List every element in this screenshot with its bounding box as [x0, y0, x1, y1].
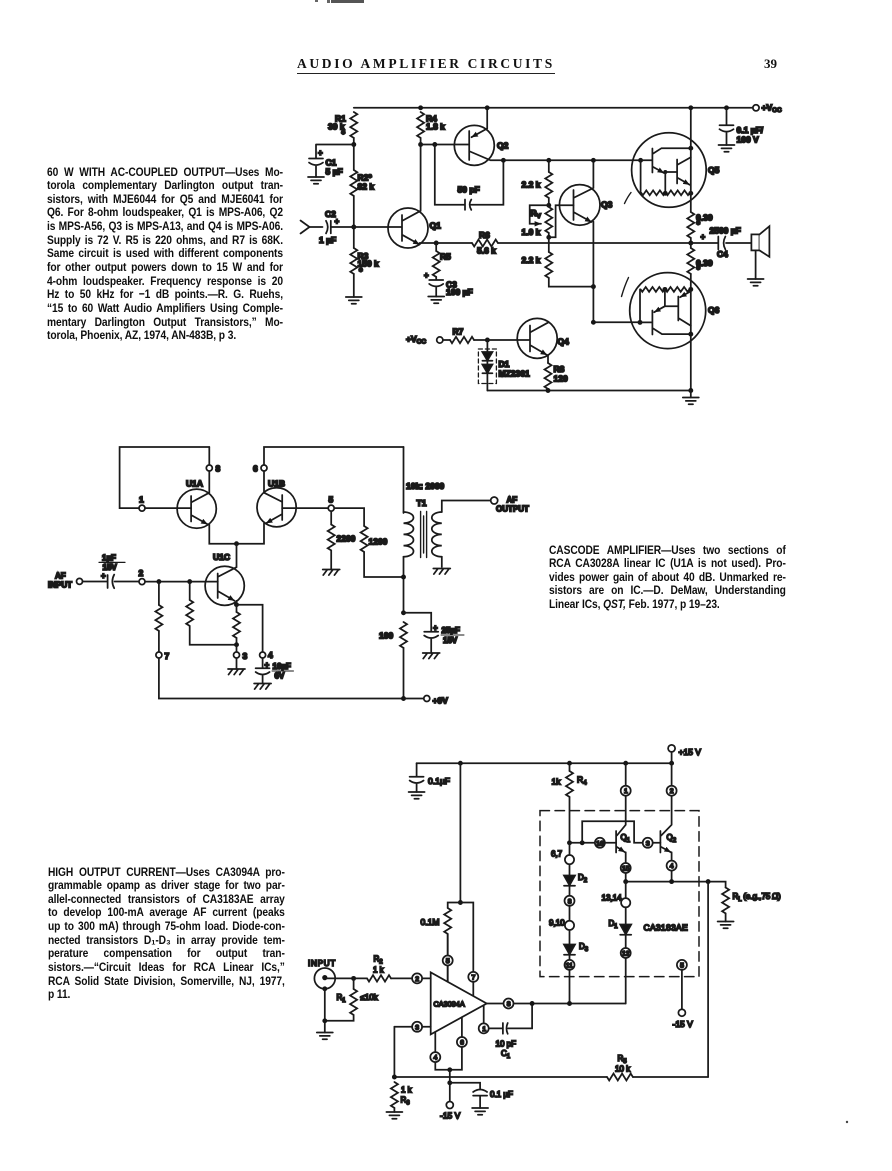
capacitor C1 10 pF: [490, 1004, 533, 1034]
darlington Q5: [632, 133, 707, 208]
svg-text:100: 100: [379, 631, 393, 641]
svg-text:+15 V: +15 V: [679, 747, 702, 757]
wire: pin1 to U1A base: [146, 507, 192, 509]
ground (main): [690, 391, 692, 398]
resistor 1200: [335, 508, 365, 526]
svg-text:15V: 15V: [443, 636, 458, 645]
svg-text:1 k: 1 k: [401, 1086, 413, 1095]
pin circled 8: [565, 896, 575, 906]
svg-text:*: *: [697, 220, 701, 230]
transistor Q3: [559, 185, 600, 226]
ground below 0.1uF: [409, 792, 425, 799]
caption: 60 W WITH AC-COUPLED OUTPUT: [47, 166, 283, 344]
svg-text:D2: D2: [578, 873, 588, 884]
wire: emitter to pin 4: [237, 605, 263, 652]
diode D1: [620, 925, 631, 935]
transistor Q1: [388, 208, 428, 248]
wire: -15V column: [449, 1070, 451, 1102]
resistor (emitter): [234, 602, 239, 607]
wire: U1C base line: [146, 581, 218, 583]
svg-text:MZ2361: MZ2361: [499, 369, 530, 379]
pin open 13,14: [621, 898, 630, 907]
wire: base bus to Q1: [570, 842, 617, 844]
transistor U1C: [205, 566, 244, 605]
svg-text:2.2 k: 2.2 k: [522, 255, 541, 265]
pin circled 2 (opamp): [412, 973, 422, 983]
svg-text:Q2: Q2: [667, 833, 677, 844]
opamp U1 CA3094A: [431, 972, 487, 1034]
resistor 2.2 k (lower): [548, 237, 550, 252]
svg-text:1k: 1k: [552, 777, 562, 787]
transistor Q2: [454, 125, 494, 165]
svg-text:15V: 15V: [103, 563, 118, 572]
svg-text:25µF: 25µF: [442, 626, 461, 635]
wire: base hook to Q2 via pin 3: [582, 821, 660, 843]
loudspeaker: [751, 234, 759, 250]
capacitor C1: [309, 159, 323, 178]
svg-text:*: *: [359, 267, 363, 277]
svg-text:INPUT: INPUT: [308, 959, 336, 968]
ground below 25uF: [423, 653, 440, 659]
capacitor 0.1uF (neg rail): [450, 1083, 487, 1108]
svg-text:1 µF: 1 µF: [319, 235, 336, 245]
svg-text:+: +: [433, 624, 438, 633]
terminal: +15 V: [668, 745, 675, 752]
svg-text:0.1 µF/: 0.1 µF/: [737, 125, 764, 135]
svg-text:1.8 k: 1.8 k: [426, 122, 445, 132]
pin circled 3: [643, 838, 653, 848]
wire: +15V rail: [417, 762, 672, 764]
svg-text:1200: 1200: [369, 537, 388, 547]
svg-text:1: 1: [624, 788, 628, 795]
node: +9V junction: [401, 696, 406, 701]
svg-text:6,7: 6,7: [551, 850, 563, 859]
resistor (bias, base): [187, 579, 192, 584]
svg-text:10k: 2000: 10k: 2000: [406, 481, 445, 491]
svg-text:C2: C2: [325, 209, 336, 219]
transformer T1 secondary: [432, 512, 442, 557]
svg-text:Q3: Q3: [601, 200, 613, 210]
capacitor C3 100 uF: [429, 280, 443, 297]
svg-text:R7: R7: [453, 327, 464, 337]
resistor R8: [547, 355, 549, 363]
node: pin 6 terminal: [261, 465, 267, 471]
svg-text:Q4: Q4: [558, 337, 570, 347]
resistor R5 10k: [394, 1076, 607, 1078]
svg-text:3: 3: [646, 840, 650, 847]
svg-text:R5: R5: [618, 1054, 628, 1065]
svg-text:CA3183AE: CA3183AE: [644, 923, 688, 933]
svg-text:+VCC: +VCC: [762, 103, 782, 115]
svg-text:0.1µF: 0.1µF: [428, 776, 450, 786]
resistor 0.39 (upper): [687, 212, 694, 238]
svg-text:R4: R4: [577, 775, 587, 787]
node: R4 bottom / bases: [567, 840, 572, 845]
diode D1 (dual) MZ2361: [486, 340, 488, 352]
svg-text:3: 3: [415, 1024, 419, 1031]
resistor R7: [443, 339, 450, 341]
node: pin 5 terminal: [328, 505, 334, 511]
resistor 0.39 (lower): [690, 243, 692, 248]
node: pin 3 terminal: [234, 652, 240, 658]
wire: pin 4: [435, 1032, 450, 1070]
svg-text:1µF: 1µF: [102, 554, 116, 563]
resistor R3: [353, 227, 355, 248]
resistor RL: [722, 888, 729, 914]
terminal: AF OUTPUT: [491, 497, 498, 504]
wire: output node line to RL: [626, 882, 726, 888]
wire: emitter ground bus: [487, 390, 690, 392]
svg-text:5: 5: [680, 962, 684, 969]
svg-text:-15 V: -15 V: [673, 1019, 694, 1029]
capacitor 50 pF feedback: [435, 145, 504, 210]
svg-text:4: 4: [670, 863, 674, 870]
wire: D1 column: [625, 882, 627, 925]
svg-text:7: 7: [165, 651, 170, 661]
wire: pin 6: [450, 1017, 462, 1070]
svg-text:2.2 k: 2.2 k: [522, 180, 541, 190]
ground below 2200: [323, 570, 340, 576]
svg-text:R1: R1: [337, 993, 347, 1004]
stray pen mark: [625, 193, 632, 204]
input jack: [314, 968, 335, 989]
svg-text:1: 1: [139, 495, 144, 505]
resistor R2 1k: [367, 975, 391, 981]
ground below 10uF: [254, 684, 271, 690]
node: output: [688, 241, 693, 246]
node: primary bottom junction: [401, 575, 406, 580]
svg-text:RL (e.g.,75 Ω): RL (e.g.,75 Ω): [733, 892, 781, 903]
transistor U1A: [177, 489, 216, 528]
wire: feedback vertical: [707, 882, 709, 1077]
svg-text:Q5: Q5: [708, 165, 720, 175]
input arrow terminal: [301, 221, 310, 234]
svg-text:10 k: 10 k: [615, 1065, 631, 1074]
capacitor C2: [326, 221, 354, 234]
ground below RL: [718, 922, 734, 929]
capacitor 25uF 15V: [404, 613, 439, 653]
resistor R1: [353, 978, 355, 989]
svg-text:10 pF: 10 pF: [496, 1040, 517, 1049]
pin open 6,7: [569, 843, 571, 876]
wire: input to R2: [327, 977, 367, 979]
svg-text:8: 8: [507, 1001, 511, 1008]
svg-text:100 µF: 100 µF: [446, 287, 473, 297]
svg-text:+: +: [265, 661, 270, 670]
pin circled 2: [667, 786, 677, 796]
wire: pin 3 input: [394, 1026, 430, 1028]
svg-text:2: 2: [415, 976, 419, 983]
svg-text:1: 1: [482, 1026, 486, 1033]
svg-text:R5: R5: [440, 252, 451, 262]
ground below C3: [428, 297, 444, 304]
svg-text:R2: R2: [374, 955, 384, 966]
ground below R3: [346, 297, 362, 304]
resistor R4 1k: [566, 771, 573, 797]
pin circled 1: [621, 786, 631, 796]
wire: +Vcc top supply rail: [354, 107, 753, 109]
node: pin 1 terminal: [139, 505, 145, 511]
svg-text:2500 µF: 2500 µF: [710, 226, 741, 236]
resistor R6 5.6 k: [434, 241, 439, 246]
ground below 0.1uF: [472, 1108, 488, 1115]
caption: CASCODE AMPLIFIER: [549, 544, 786, 612]
svg-text:≤10k: ≤10k: [361, 993, 379, 1002]
pin circled 7: [468, 972, 478, 982]
svg-text:D1: D1: [499, 359, 510, 369]
ground below C1: [308, 177, 324, 184]
svg-text:*: *: [342, 129, 346, 139]
resistor R1: [350, 112, 357, 138]
wire to Q2 base: [421, 144, 470, 146]
resistor R4: [417, 112, 424, 138]
svg-text:OUTPUT: OUTPUT: [496, 505, 529, 514]
wire: jack ground: [324, 989, 326, 1033]
ground below jack: [317, 1033, 333, 1040]
diode D2: [564, 876, 575, 886]
capacitor 0.1uF (rail bypass): [410, 763, 424, 792]
wire: pin7 to supply rail: [159, 658, 404, 698]
wire: RV wiper to Q3 base: [549, 205, 574, 237]
svg-text:+9V: +9V: [433, 695, 449, 705]
svg-text:-15 V: -15 V: [440, 1111, 461, 1121]
darlington Q6: [630, 273, 706, 349]
node: cascode common junction: [234, 541, 239, 546]
svg-text:R6: R6: [479, 230, 490, 240]
node: pin 7 terminal: [156, 652, 162, 658]
svg-text:1 k: 1 k: [373, 966, 385, 975]
svg-text:3: 3: [243, 651, 248, 661]
node: pin 8 terminal: [206, 465, 212, 471]
node: Q4 collector line to Q6 base: [593, 321, 640, 323]
resistor R2: [353, 145, 355, 171]
node: Q4 base: [485, 338, 490, 343]
svg-text:12: 12: [622, 951, 630, 958]
svg-text:Q2: Q2: [497, 141, 509, 151]
svg-text:82 k: 82 k: [358, 182, 375, 192]
terminal: +9V: [424, 696, 430, 702]
wire: Q5 output column: [690, 108, 692, 212]
capacitor C4 2500 uF: [691, 237, 751, 250]
svg-text:RV: RV: [531, 208, 542, 220]
resistor 2.2 k (upper): [546, 158, 551, 163]
svg-text:R6: R6: [401, 1096, 411, 1107]
caption: HIGH OUTPUT CURRENT: [48, 866, 285, 1003]
pin open 9,10: [565, 921, 574, 930]
resistor 100: [400, 622, 407, 648]
transistor U1B: [257, 488, 296, 527]
capacitor 10uF 6V: [256, 658, 270, 682]
svg-text:AF: AF: [507, 496, 518, 505]
pin circled 11: [565, 960, 575, 970]
svg-text:+VCC: +VCC: [406, 334, 426, 346]
wire to C1: [316, 145, 354, 159]
svg-text:10µF: 10µF: [273, 662, 292, 671]
capacitor 0.1 uF / 100 V: [724, 105, 729, 110]
terminal: AF INPUT: [77, 578, 83, 584]
resistor (bias, pin 7): [156, 579, 161, 584]
resistor R5: [435, 243, 437, 251]
svg-text:*: *: [697, 265, 701, 275]
svg-text:6: 6: [253, 464, 258, 474]
pin circled 4: [667, 861, 677, 871]
wire: pin 7 riser: [460, 903, 473, 997]
potentiometer RV 1.0 k: [546, 203, 551, 208]
svg-text:5: 5: [329, 495, 334, 505]
resistor 2200: [330, 511, 332, 524]
diode D3: [564, 945, 575, 955]
pin circled 16: [595, 838, 605, 848]
svg-text:2200: 2200: [337, 534, 356, 544]
transistor Q1 (array): [615, 831, 617, 853]
svg-text:2: 2: [139, 568, 144, 578]
svg-text:4: 4: [268, 650, 273, 660]
svg-text:6: 6: [460, 1040, 464, 1047]
svg-text:+: +: [701, 233, 706, 242]
node A: R1/R2/C1 junction: [351, 142, 356, 147]
svg-text:5 µF: 5 µF: [326, 167, 343, 177]
svg-text:13,14: 13,14: [602, 894, 623, 903]
svg-text:+: +: [424, 271, 429, 280]
terminal -15 V (opamp): [446, 1102, 453, 1109]
stray speck: [846, 1121, 848, 1123]
svg-text:7: 7: [472, 974, 476, 981]
node: +Vcc terminal: [753, 105, 759, 111]
svg-text:0.1M: 0.1M: [421, 917, 440, 927]
wire: pin5 column: [447, 934, 449, 982]
svg-text:11: 11: [566, 962, 573, 969]
svg-text:Q6: Q6: [708, 305, 720, 315]
svg-text:5.6 k: 5.6 k: [477, 246, 496, 256]
resistor R6 1k: [391, 1082, 398, 1108]
svg-text:U1C: U1C: [213, 552, 230, 562]
box: CA3183AE dashed outline: [540, 811, 699, 977]
svg-text:16: 16: [596, 840, 604, 847]
ground below R6: [386, 1112, 402, 1119]
svg-text:C1: C1: [501, 1049, 511, 1060]
pin circled 15: [621, 863, 631, 873]
svg-text:Q1: Q1: [621, 833, 631, 844]
svg-text:+: +: [101, 572, 106, 581]
wire: rail to 0.1M / pin 7: [459, 763, 461, 902]
node: R4/Q1 collector/Q2 base: [418, 142, 423, 147]
node: pin 4 terminal: [260, 652, 266, 658]
svg-text:6V: 6V: [275, 672, 285, 681]
svg-text:4: 4: [434, 1055, 438, 1062]
svg-text:5: 5: [446, 958, 450, 965]
svg-text:50 pF: 50 pF: [458, 185, 480, 195]
svg-text:R8: R8: [554, 364, 565, 374]
ground below pin 3: [236, 658, 238, 669]
svg-text:AF: AF: [55, 572, 66, 581]
transformer T1 core: [421, 512, 427, 558]
svg-text:+: +: [318, 149, 323, 158]
resistor 0.1M: [448, 903, 461, 909]
transistor Q2 (array): [659, 831, 661, 853]
svg-text:15: 15: [622, 866, 630, 873]
svg-text:8: 8: [568, 898, 572, 905]
wire: pin 1 / 10pF: [483, 1005, 485, 1028]
svg-text:2: 2: [670, 788, 674, 795]
svg-text:9,10: 9,10: [549, 919, 565, 928]
pin circled 12: [621, 948, 631, 958]
node: pin 2 terminal: [139, 579, 145, 585]
wire: pin6 riser to T1: [264, 447, 404, 493]
pin circled 5 / -15V: [677, 960, 687, 970]
node: emitter bypass junction: [401, 610, 406, 615]
svg-text:8: 8: [216, 464, 221, 474]
svg-text:U1A: U1A: [186, 479, 203, 489]
transistor Q4: [517, 318, 557, 358]
svg-text:D3: D3: [579, 942, 589, 953]
node B: input node: [351, 225, 356, 230]
transformer T1 primary: [403, 447, 405, 513]
svg-text:INPUT: INPUT: [48, 581, 72, 590]
svg-text:D1: D1: [609, 919, 619, 930]
svg-text:0.1 µF: 0.1 µF: [490, 1090, 513, 1099]
svg-text:1.0 k: 1.0 k: [522, 227, 541, 237]
svg-text:U1B: U1B: [268, 479, 285, 489]
terminal +Vcc (driver): [437, 337, 443, 343]
svg-text:100 V: 100 V: [737, 134, 760, 144]
wire: pin8 to pin1 loop: [120, 447, 210, 508]
wire: opamp output: [487, 1003, 626, 1005]
svg-text:CA3094A: CA3094A: [434, 1000, 465, 1009]
svg-text:T1: T1: [417, 498, 427, 508]
svg-text:C4: C4: [717, 249, 728, 259]
svg-text:120: 120: [554, 374, 568, 384]
capacitor 1uF 15V input: [83, 575, 139, 589]
svg-text:Q1: Q1: [430, 221, 442, 231]
